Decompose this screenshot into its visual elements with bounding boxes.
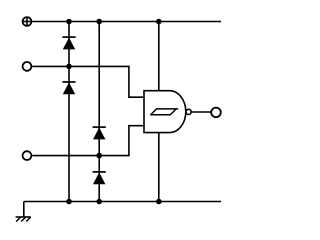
- node top rail column 1: [66, 19, 72, 25]
- terminal J3 input B: [23, 151, 32, 160]
- wire input B to gate pin 2: [32, 126, 144, 156]
- wire diode column 1: [68, 22, 70, 202]
- node top rail gate pin: [156, 19, 162, 25]
- diode D3: [93, 127, 106, 139]
- wire input A to gate pin 1: [32, 66, 144, 97]
- node input B column 2: [96, 153, 102, 159]
- ground: [16, 202, 31, 222]
- diode D4: [93, 172, 106, 184]
- node input A column 1: [66, 64, 72, 70]
- node bottom rail column 2: [96, 199, 102, 205]
- schmitt nand gate U1: [144, 91, 191, 133]
- wire bottom ground rail: [24, 201, 221, 203]
- wire gate top to supply rail: [158, 22, 160, 91]
- terminal J4 output: [211, 108, 221, 118]
- node top rail column 2: [96, 19, 102, 25]
- node bottom rail column 1: [66, 199, 72, 205]
- terminal J1 positive supply: [23, 17, 32, 26]
- diode D1: [62, 37, 75, 49]
- wire gate bottom to ground rail: [158, 133, 160, 202]
- wire diode column 2: [98, 22, 100, 202]
- wire gate output: [191, 111, 210, 113]
- terminal J2 input A: [23, 62, 32, 71]
- node bottom rail gate pin: [156, 199, 162, 205]
- diode D2: [62, 82, 75, 94]
- wire top supply rail: [32, 21, 221, 23]
